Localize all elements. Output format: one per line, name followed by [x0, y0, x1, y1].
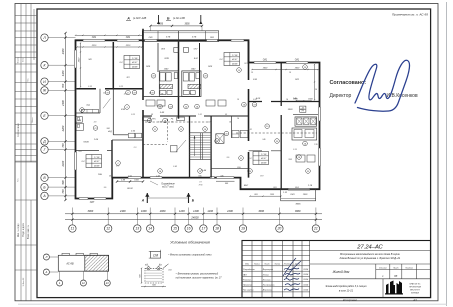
svg-text:– Место установки спиральной т: – Место установки спиральной тяги: [167, 253, 212, 256]
sanitary block left: [159, 71, 178, 97]
svg-text:домов Вечный по ул.Кирьянова: домов Вечный по ул.Кирьянова г. Братске …: [340, 257, 401, 260]
svg-text:42.37: 42.37: [132, 61, 138, 64]
axis Ж: [41, 87, 48, 94]
svg-text:4.Д: 4.Д: [86, 104, 90, 107]
window bottom middle 4: [210, 176, 215, 179]
kitchen fixtures right section: [295, 117, 317, 126]
svg-text:м/2 (7 шт): м/2 (7 шт): [162, 187, 174, 189]
svg-text:ГАП: ГАП: [243, 273, 247, 276]
fixtures below sanitary blocks: [146, 100, 155, 106]
svg-text:13: 13: [135, 227, 139, 231]
svg-text:17: 17: [202, 227, 206, 231]
svg-text:А3: А3: [412, 298, 417, 302]
svg-text:8.М: 8.М: [194, 58, 198, 60]
axis 15: [171, 225, 178, 232]
interior dim chain right section: [252, 69, 318, 71]
svg-text:21: 21: [105, 281, 109, 285]
svg-text:Примечания см. л. АС-95: Примечания см. л. АС-95: [392, 12, 428, 16]
kitchen counter left section: [82, 109, 99, 112]
sanitary block bottom wall: [143, 96, 200, 98]
dashed line corridor vertical: [167, 119, 169, 142]
top dimension line over balconies: [151, 25, 203, 27]
distribution boxes under corridor wall: [143, 117, 151, 121]
svg-text:3000: 3000: [295, 209, 301, 213]
svg-text:44.98: 44.98: [232, 63, 238, 66]
window right wall 1: [318, 107, 321, 121]
key plan outline: [58, 255, 108, 271]
window top 3: [231, 39, 244, 42]
svg-text:(к АСУ-12В: (к АСУ-12В: [133, 16, 147, 20]
svg-text:1200: 1200: [179, 209, 185, 213]
svg-text:А: А: [141, 199, 145, 203]
svg-text:42.37: 42.37: [232, 58, 238, 61]
svg-text:21: 21: [313, 227, 318, 231]
svg-text:2200: 2200: [226, 209, 233, 213]
wall right of sanitary blocks: [199, 43, 201, 97]
svg-text:2400: 2400: [119, 209, 126, 213]
right section room wall: [249, 150, 282, 152]
legend SM symbol: [151, 251, 161, 258]
svg-text:21: 21: [93, 128, 96, 130]
svg-text:3ЛВ: 3ЛВ: [121, 109, 126, 111]
door swing left section: [103, 99, 111, 109]
svg-text:17.08: 17.08: [232, 55, 238, 57]
axis Д: [41, 138, 48, 145]
svg-text:700: 700: [61, 189, 65, 194]
svg-text:ИНСТИТУТ: ИНСТИТУТ: [410, 289, 421, 291]
window OK1 top-left 2: [117, 39, 139, 42]
big diagonal signature over stamp: [283, 258, 301, 278]
svg-text:ОК1: ОК1: [92, 37, 97, 39]
svg-text:З.В: З.В: [288, 159, 292, 161]
svg-text:2300: 2300: [61, 48, 65, 55]
window bottom middle 2: [150, 176, 162, 179]
wall y113 left: [76, 112, 101, 114]
svg-text:42.37: 42.37: [261, 157, 267, 160]
window left wall 2: [74, 152, 77, 170]
staircase enclosure walls: [189, 116, 191, 178]
section cut bottom A: [146, 193, 148, 203]
position mark circles: [132, 90, 137, 95]
dashed line corridor horizontal mid: [145, 121, 210, 123]
left section lower partition vertical: [111, 140, 113, 178]
svg-text:3000: 3000: [87, 209, 93, 213]
dashed line lobby: [143, 144, 167, 146]
svg-text:ОК7: ОК7: [90, 202, 95, 204]
svg-text:16Б: 16Б: [98, 174, 102, 176]
svg-text:Л: Л: [44, 255, 47, 259]
center wall of sanitary block: [178, 42, 180, 119]
svg-text:А: А: [45, 270, 48, 274]
svg-text:14: 14: [229, 121, 231, 124]
svg-text:Этаж-надстройка рабоч 3,1 секц: Этаж-надстройка рабоч 3,1 секции: [325, 285, 367, 288]
svg-text:44.98: 44.98: [94, 165, 100, 168]
svg-text:Б: Б: [167, 16, 170, 20]
axis Г: [41, 146, 48, 153]
svg-text:– Вентканал указан, расположен: – Вентканал указан, расположенный: [175, 273, 219, 276]
svg-text:СМ: СМ: [153, 254, 158, 258]
svg-text:2200: 2200: [61, 125, 65, 132]
lobby door swing: [176, 140, 186, 152]
svg-text:1400: 1400: [61, 70, 65, 76]
svg-text:15: 15: [173, 227, 177, 231]
left vertical dimension line: [65, 33, 67, 200]
axis 21: [312, 225, 319, 232]
svg-text:03.24: 03.24: [303, 278, 308, 281]
left registration strip grid: [20, 4, 22, 163]
svg-text:Директор: Директор: [330, 93, 352, 99]
axis 11: [69, 225, 76, 232]
axis А: [41, 192, 48, 199]
svg-text:11: 11: [154, 129, 156, 131]
axis 17: [200, 225, 207, 232]
room stamp upper left room: [124, 56, 140, 69]
svg-text:Обозн.: Обозн.: [32, 117, 34, 123]
window OK1 right section 1: [254, 61, 276, 64]
svg-text:11: 11: [82, 281, 85, 285]
left section lower partition horizontal: [76, 150, 113, 152]
elevator shaft with X: [216, 134, 224, 144]
title block outline: [242, 241, 431, 298]
svg-text:Проверил: Проверил: [243, 285, 253, 287]
svg-text:03.24: 03.24: [303, 289, 308, 292]
svg-text:24000: 24000: [190, 216, 199, 220]
title block right part lines: [310, 250, 431, 252]
right section partition vertical: [280, 63, 282, 190]
bottom dimension line row 2 (total): [65, 219, 322, 221]
window OK7 bottom-left 1: [79, 197, 88, 200]
bottom dimension line row 1: [65, 213, 322, 215]
svg-text:12: 12: [106, 227, 110, 231]
svg-text:К1: К1: [145, 264, 147, 266]
axis Е: [41, 112, 48, 119]
svg-text:Рук.группы: Рук.группы: [243, 290, 254, 292]
svg-text:44.98: 44.98: [132, 66, 138, 69]
svg-text:ОК1: ОК1: [126, 37, 131, 39]
svg-text:16: 16: [187, 227, 191, 231]
svg-text:17.08: 17.08: [261, 154, 267, 156]
svg-text:2210: 2210: [125, 45, 131, 47]
svg-text:в осях 11–21: в осях 11–21: [339, 289, 354, 292]
svg-text:РУС: РУС: [152, 118, 156, 120]
svg-text:11: 11: [71, 227, 75, 231]
svg-text:03.24: 03.24: [303, 273, 308, 276]
svg-text:88: 88: [394, 274, 397, 278]
interior dim chain left wall vertical: [80, 43, 82, 87]
window right wall 2: [318, 148, 321, 166]
svg-text:800: 800: [61, 180, 65, 185]
axis В: [41, 174, 48, 181]
balcony door gap 1: [145, 39, 158, 42]
balcony row above top wall: [142, 31, 218, 42]
svg-text:9-Фев-02: 9-Фев-02: [22, 277, 25, 286]
right section corridor wall: [249, 101, 320, 103]
svg-text:ПРОЕКТНЫЙ: ПРОЕКТНЫЙ: [409, 286, 422, 289]
window left wall 1: [74, 50, 77, 68]
svg-text:Согласовано:: Согласовано:: [330, 80, 367, 86]
room 8B lower wall: [211, 167, 248, 169]
svg-text:3 ЛВ: 3 ЛВ: [192, 37, 197, 39]
svg-text:под монтажн. высоте парапета.: под монтажн. высоте парапета. (м. 17: [176, 276, 222, 279]
staircase flight: [190, 133, 212, 160]
axis 18: [213, 225, 220, 232]
key plan hatched section: [85, 255, 109, 271]
svg-text:2000: 2000: [159, 209, 166, 213]
vent shafts beside center wall: [174, 48, 179, 53]
svg-text:101: 101: [168, 270, 171, 272]
wall x112-143 horizontal: [112, 139, 143, 141]
dim 2.48 1000 over entrance: [117, 181, 143, 183]
svg-text:Согласовано: Согласовано: [18, 122, 20, 137]
svg-text:2100: 2100: [61, 100, 65, 107]
svg-text:2620: 2620: [79, 57, 81, 63]
balcony door gap 2: [207, 39, 218, 42]
svg-text:1000: 1000: [141, 209, 147, 213]
window OK7 bottom-left 2: [94, 197, 106, 200]
corridor wall left section horizontal: [77, 88, 144, 90]
svg-text:14: 14: [148, 227, 152, 231]
svg-text:14: 14: [286, 98, 288, 101]
title block left grid horizontals: [242, 245, 310, 247]
staircase arrow: [194, 136, 196, 156]
railing below bottom windows: [216, 180, 235, 182]
svg-text:18: 18: [215, 227, 219, 231]
wall x100 vertical: [99, 89, 101, 113]
svg-text:Разработал: Разработал: [243, 269, 256, 271]
axis 14: [147, 225, 154, 232]
wall y134.8: [113, 134, 128, 136]
svg-text:ПБОВ: ПБОВ: [83, 142, 89, 144]
svg-text:Листов: Листов: [404, 267, 413, 269]
svg-text:Иванова: Иванова: [263, 279, 272, 281]
svg-text:42.37: 42.37: [94, 160, 100, 163]
bath tub right (hatched): [188, 84, 201, 88]
svg-text:Лист: Лист: [392, 267, 399, 269]
legend symbol 2 dotted vent: [145, 268, 163, 283]
interior dim chain right wall vertical: [314, 65, 316, 101]
svg-text:Копировал: Копировал: [343, 298, 357, 302]
wall x231.5 vertical: [231, 116, 233, 138]
svg-text:ОК1: ОК1: [263, 60, 268, 62]
paper edge shadow right: [446, 2, 448, 306]
interior dim chain under top-left wall: [77, 46, 142, 48]
left wall cells: [76, 117, 83, 123]
svg-text:Изм: Изм: [245, 264, 249, 266]
axis 13: [134, 225, 141, 232]
small stamp right corridor: [300, 106, 306, 112]
svg-text:АС-9В: АС-9В: [65, 263, 74, 266]
wall left of sanitary blocks: [157, 43, 159, 72]
svg-text:А.Д: А.Д: [107, 130, 112, 133]
svg-text:2.40: 2.40: [159, 111, 165, 114]
svg-text:8656: 8656: [296, 204, 302, 206]
svg-text:03.24: 03.24: [303, 268, 308, 271]
svg-text:Зона: Зона: [23, 58, 25, 62]
svg-text:80.02: 80.02: [127, 188, 133, 190]
small dim line above left wall: [76, 34, 144, 36]
paper edge shadow bottom: [18, 303, 447, 305]
svg-text:3656: 3656: [184, 24, 190, 26]
wall between left section and tower: [142, 29, 144, 178]
svg-text:Абрамова: Абрамова: [262, 289, 273, 292]
corridor wall middle: [143, 115, 249, 117]
svg-text:17.08: 17.08: [132, 58, 138, 60]
svg-text:Ограждение: Ограждение: [161, 182, 175, 185]
section cut bottom B: [188, 193, 190, 203]
svg-text:17.08: 17.08: [94, 157, 100, 159]
axis Л: [41, 34, 48, 41]
svg-text:21: 21: [239, 158, 242, 160]
dim 1600 right corridor: [296, 100, 311, 102]
svg-text:1600: 1600: [288, 109, 294, 111]
svg-text:Встроенные малосемейного жилог: Встроенные малосемейного жилого дома В с…: [340, 253, 400, 256]
svg-text:Формат: Формат: [17, 57, 20, 64]
vent leader arrow: [163, 264, 169, 269]
axis К: [41, 61, 48, 68]
sanitary block right: [182, 71, 201, 97]
window bottom middle 3: [217, 176, 235, 179]
bath tub left (hatched): [160, 84, 173, 88]
svg-text:Инв. № подл.: Инв. № подл.: [17, 222, 20, 237]
axis И: [41, 78, 48, 85]
svg-text:8.М: 8.М: [253, 79, 257, 81]
svg-text:А: А: [126, 16, 130, 20]
axis 16: [185, 225, 192, 232]
svg-text:Кол.: Кол.: [18, 178, 20, 182]
svg-text:Подп. и дата: Подп. и дата: [23, 223, 25, 237]
key plan axis circle L: [43, 254, 49, 260]
svg-text:20: 20: [277, 227, 282, 231]
svg-text:Н.контр.: Н.контр.: [243, 279, 252, 281]
room stamp lower left room: [86, 155, 102, 168]
svg-text:2.48: 2.48: [120, 178, 126, 181]
svg-text:Условные обозначения: Условные обозначения: [170, 241, 210, 245]
window OK1 right section 2: [286, 61, 308, 64]
thin wall right kitchen niche: [293, 113, 318, 115]
svg-text:3000: 3000: [258, 209, 264, 213]
dashed line corridor horizontal right: [236, 132, 317, 134]
org logo: [385, 281, 403, 295]
window bottom right: [288, 188, 310, 191]
loggia bottom right: [281, 189, 316, 201]
wall between middle and right section: [248, 42, 250, 178]
svg-text:2600: 2600: [294, 68, 300, 70]
svg-text:19: 19: [241, 227, 245, 231]
director signature (blue ink): [355, 60, 409, 111]
room stamp lower right room: [253, 152, 269, 165]
svg-text:1200: 1200: [193, 209, 199, 213]
fixtures right section lower: [296, 155, 305, 162]
svg-text:2400: 2400: [61, 160, 65, 167]
key plan axis circle A: [43, 269, 49, 275]
svg-text:ОК1: ОК1: [295, 60, 300, 62]
door gap bottom middle entrance: [128, 176, 141, 179]
svg-text:1600: 1600: [300, 109, 306, 111]
svg-text:Поз.: Поз.: [28, 78, 30, 82]
svg-text:(к АС-12В: (к АС-12В: [173, 16, 185, 20]
svg-text:Колич: Колич: [254, 264, 260, 266]
building outer walls: [76, 40, 320, 198]
svg-text:700: 700: [61, 83, 65, 88]
svg-text:ФИЛИАЛ: ФИЛИАЛ: [411, 291, 420, 294]
svg-text:Кондрашова: Кондрашова: [263, 284, 275, 287]
svg-text:Лист: Лист: [263, 264, 269, 266]
staff signatures squiggles: [284, 268, 299, 270]
svg-text:Взам. инв. №: Взам. инв. №: [27, 224, 30, 239]
svg-text:Жилой дом: Жилой дом: [332, 270, 350, 274]
title block left grid verticals: [251, 241, 253, 298]
axis 12: [105, 225, 112, 232]
svg-text:700: 700: [61, 143, 65, 148]
svg-text:2210: 2210: [91, 45, 97, 47]
svg-text:Стадия: Стадия: [379, 266, 388, 269]
svg-text:3 ЛВ: 3 ЛВ: [166, 37, 171, 39]
svg-text:ЖК: ЖК: [87, 59, 92, 61]
axis 20: [276, 225, 283, 232]
svg-text:1200: 1200: [207, 209, 213, 213]
svg-text:14: 14: [237, 117, 239, 120]
window OK1 top-left 1: [83, 39, 105, 42]
svg-text:Воронцова: Воронцова: [263, 269, 274, 271]
svg-text:27.24–АС: 27.24–АС: [356, 245, 383, 251]
axis 19: [239, 225, 246, 232]
svg-text:2600: 2600: [262, 68, 268, 70]
svg-text:Попов: Попов: [263, 274, 269, 276]
axis Б: [41, 183, 48, 190]
washbasin boxes: [129, 133, 135, 138]
key plan axis circles bottom: [57, 280, 63, 286]
kitchenette near section wall: [232, 131, 239, 138]
partition wall left section vertical: [112, 42, 114, 89]
svg-text:11.45: 11.45: [201, 169, 207, 172]
lower dim line right section: [250, 195, 281, 197]
svg-text:44.98: 44.98: [261, 162, 267, 165]
svg-text:БРАТСКГЭС: БРАТСКГЭС: [410, 283, 421, 286]
key plan top tabs: [62, 253, 70, 255]
svg-text:8ЛВ: 8ЛВ: [165, 58, 170, 60]
room stamp upper middle room: [224, 53, 240, 66]
svg-text:03.24: 03.24: [303, 283, 308, 286]
